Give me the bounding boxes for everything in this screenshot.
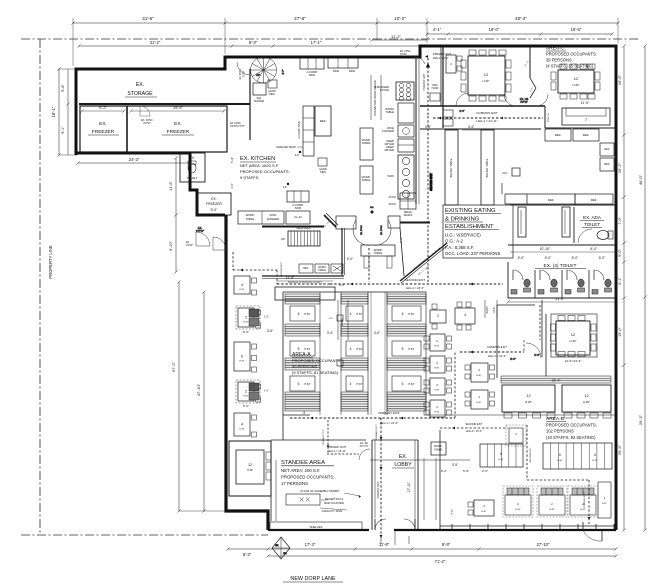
svg-text:LEG-1 = 24'-3": LEG-1 = 24'-3" <box>406 286 424 290</box>
buffet table 1 <box>425 125 458 205</box>
svg-text:H:30": H:30" <box>243 322 249 324</box>
banquette bench stripes column x285 <box>285 294 320 411</box>
svg-text:SINK: SINK <box>333 69 340 73</box>
sauce station <box>275 276 345 300</box>
corridor west wall <box>342 228 345 275</box>
svg-text:H:30": H:30" <box>408 348 414 351</box>
svg-text:(9 STAFFS, 81 SEATING): (9 STAFFS, 81 SEATING) <box>292 370 339 375</box>
svg-text:H:30": H:30" <box>573 83 580 87</box>
buffet table 2 <box>462 125 494 205</box>
svg-text:DRAWS: DRAWS <box>404 214 413 217</box>
svg-text:FREEZER: FREEZER <box>206 202 222 206</box>
place of assembly permit sign <box>300 489 361 498</box>
svg-text:TABLE: TABLE <box>318 269 326 272</box>
svg-text:FREEZER: FREEZER <box>92 129 115 135</box>
svg-text:3'-9": 3'-9" <box>482 469 488 473</box>
svg-text:11'-8": 11'-8" <box>379 542 390 547</box>
svg-text:5'-0": 5'-0" <box>599 256 607 260</box>
svg-text:16'-6": 16'-6" <box>617 74 622 85</box>
svg-text:H:30": H:30" <box>498 459 504 461</box>
svg-text:H:30": H:30" <box>434 390 439 392</box>
EX. LOBBY label <box>392 454 414 468</box>
svg-text:BUFFET TABLE: BUFFET TABLE <box>485 158 489 177</box>
AREA-A label block <box>292 352 342 375</box>
svg-text:PROPOSED OCCUPANTS:: PROPOSED OCCUPANTS: <box>546 52 597 57</box>
svg-text:6: 6 <box>594 453 596 457</box>
table 6 (west wall y342) <box>234 342 257 372</box>
svg-text:WASHER: WASHER <box>267 217 279 221</box>
banquette aisle lines <box>267 292 426 415</box>
svg-text:SHELVES: SHELVES <box>310 525 323 529</box>
lobby walls <box>372 440 418 530</box>
svg-text:EX. KITCHEN: EX. KITCHEN <box>240 156 275 162</box>
svg-text:7: 7 <box>585 118 587 122</box>
hand sink area-c left <box>430 84 440 101</box>
interior wall right of kitchen corridor <box>442 46 444 128</box>
svg-text:H:30": H:30" <box>434 412 439 414</box>
deep fryers <box>385 139 414 152</box>
svg-text:ESTABLISHMENT: ESTABLISHMENT <box>445 224 494 230</box>
svg-text:10'-2": 10'-2" <box>394 16 406 21</box>
dimension 24'-3" <box>76 157 191 165</box>
svg-text:EX.: EX. <box>189 156 194 160</box>
svg-text:40'-3": 40'-3" <box>515 16 527 21</box>
svg-text:AREA-B: AREA-B <box>546 416 564 422</box>
svg-text:OCC. LOAD: 237 PERSONS: OCC. LOAD: 237 PERSONS <box>445 251 501 256</box>
svg-text:7'-0": 7'-0" <box>450 509 454 515</box>
svg-text:BAR COUNTER: BAR COUNTER <box>324 501 344 505</box>
column (col.) <box>502 168 520 176</box>
svg-text:EX.: EX. <box>399 454 407 460</box>
svg-text:2: 2 <box>245 316 247 320</box>
svg-text:10'-0": 10'-0" <box>493 307 496 313</box>
svg-text:3'0"W": 3'0"W" <box>143 121 151 125</box>
svg-text:LEG-1 = 2'-0": LEG-1 = 2'-0" <box>433 56 449 60</box>
room EX. FREEZER 5'-0" <box>198 193 231 215</box>
svg-text:F.A.: 8,368 S.F.: F.A.: 8,368 S.F. <box>445 245 474 250</box>
table 4 bottom <box>463 469 494 516</box>
svg-text:46'-0": 46'-0" <box>638 174 643 185</box>
svg-text:3'0"W": 3'0"W" <box>196 229 204 233</box>
svg-text:STORAGE: STORAGE <box>127 91 153 97</box>
svg-text:27'-10": 27'-10" <box>537 542 551 547</box>
svg-text:REF.: REF. <box>548 198 555 202</box>
svg-text:GREASE TRAP: GREASE TRAP <box>276 145 296 149</box>
svg-text:102 PERSONS: 102 PERSONS <box>546 429 574 434</box>
svg-text:19'-9": 19'-9" <box>173 106 183 110</box>
svg-text:31'-6": 31'-6" <box>142 16 154 21</box>
svg-text:NET AREA: 1820 S.F.: NET AREA: 1820 S.F. <box>240 163 279 168</box>
dimension line top row 2 (right) <box>370 27 613 42</box>
svg-text:8'-3": 8'-3" <box>243 552 252 557</box>
svg-text:17'-1": 17'-1" <box>311 40 322 45</box>
col square mid2 <box>337 360 343 366</box>
high tables 2 H:30 row <box>503 482 611 518</box>
svg-text:3'0"W": 3'0"W" <box>186 244 193 247</box>
svg-text:SECOND EXIT: SECOND EXIT <box>281 262 283 277</box>
svg-text:F.D.: F.D. <box>295 153 300 157</box>
svg-text:PROPOSED OCCUPANTS:: PROPOSED OCCUPANTS: <box>281 475 334 480</box>
dimension line left bottom (57'-2", 47'-10") <box>171 280 240 512</box>
ramp area-b <box>485 300 497 318</box>
room EX. FREEZER (9'-2") <box>80 106 227 152</box>
room 12-table (bottom-left bump) <box>229 441 276 521</box>
svg-text:12: 12 <box>584 393 589 398</box>
svg-text:12: 12 <box>248 463 252 467</box>
door arc area-c middle <box>504 94 548 106</box>
kitchen south wall east segment <box>400 223 430 277</box>
svg-text:6: 6 <box>402 347 404 351</box>
egress right side to toilets <box>527 305 590 524</box>
banquette tables column x387 <box>392 306 421 391</box>
svg-text:F.D.: F.D. <box>370 207 374 209</box>
svg-text:EX.: EX. <box>174 121 182 127</box>
tables 4 column (middle) <box>424 334 452 417</box>
work table (lobby top) <box>424 442 458 520</box>
hand sink (top) <box>268 80 277 96</box>
area-b long tables (12 each) <box>502 385 611 418</box>
svg-text:5'-0": 5'-0" <box>510 357 516 361</box>
svg-text:BREAK: BREAK <box>404 211 412 214</box>
svg-text:5'-10": 5'-10" <box>231 157 234 163</box>
svg-text:WORK: WORK <box>434 444 442 448</box>
svg-text:21'-0": 21'-0" <box>555 297 565 301</box>
room EX. FREEZER (19'-9") <box>129 106 225 135</box>
svg-text:6: 6 <box>298 347 300 351</box>
egress common exit y352 <box>460 340 524 358</box>
svg-text:H:30": H:30" <box>602 503 607 505</box>
svg-text:3'-6": 3'-6" <box>267 329 273 333</box>
svg-text:EX. FPSC: EX. FPSC <box>381 225 383 235</box>
svg-text:REF.: REF. <box>320 119 327 123</box>
svg-text:H:30": H:30" <box>525 400 532 404</box>
svg-text:7'-0": 7'-0" <box>618 217 622 225</box>
egress common exit leg-1 (area-c) <box>433 111 550 128</box>
svg-text:SOUP: SOUP <box>389 195 397 199</box>
door arcs area-c entry <box>456 93 469 113</box>
counter 2-COMP sink (center vertical) <box>297 106 314 156</box>
svg-text:LEG-3 = 15'-11": LEG-3 = 15'-11" <box>328 449 346 453</box>
svg-text:9'-2": 9'-2" <box>99 106 107 110</box>
svg-text:4: 4 <box>350 382 352 386</box>
dimension line bottom <box>226 542 617 564</box>
soup station <box>389 193 416 217</box>
svg-text:57'-2": 57'-2" <box>171 361 176 372</box>
svg-text:LEG-1 = 14'-3": LEG-1 = 14'-3" <box>488 354 506 358</box>
svg-text:H:36": H:36" <box>247 469 253 472</box>
table 4 (west wall y276) <box>234 276 257 295</box>
svg-text:4'-4": 4'-4" <box>468 125 474 129</box>
refrigerator row (right mid) <box>502 183 613 204</box>
svg-text:SECOND EXIT: SECOND EXIT <box>530 447 532 462</box>
svg-text:(4 STAFFS, 35 SEATING): (4 STAFFS, 35 SEATING) <box>546 64 594 69</box>
small labels kitchen west exits <box>186 51 425 247</box>
table 2 (west wall y308) <box>236 306 269 334</box>
counter SINK boxes (top) <box>328 58 358 73</box>
svg-text:H:30": H:30" <box>481 511 486 513</box>
corridor partitions <box>510 205 616 237</box>
table 13-6 square (12 seats) <box>551 314 598 363</box>
svg-text:3'-0": 3'-0" <box>231 183 234 188</box>
svg-text:47'-10": 47'-10" <box>196 383 201 396</box>
banquette tables column x285 <box>290 306 315 391</box>
storefront mullions <box>440 524 616 530</box>
work table / dish washer row <box>238 211 310 224</box>
svg-text:4'-7": 4'-7" <box>281 69 285 74</box>
refrigerator (kitchen center) <box>315 106 331 136</box>
svg-text:3'0"x7'0": 3'0"x7'0" <box>359 445 368 448</box>
room EX. (4) TOILET <box>508 262 616 298</box>
door arcs kitchen west <box>196 226 226 250</box>
second exit leg-4 dashes <box>440 423 508 433</box>
svg-text:H:30": H:30" <box>580 509 586 511</box>
svg-text:H:30": H:30" <box>557 460 563 462</box>
egress down to lobby <box>375 418 382 540</box>
svg-text:SOUP: SOUP <box>389 202 397 206</box>
door arc bottom-right <box>583 522 602 541</box>
svg-text:STOVE: STOVE <box>380 88 390 92</box>
egress west corridor <box>233 252 277 271</box>
svg-text:REF.: REF. <box>604 147 610 151</box>
wall jog near standee <box>271 415 366 440</box>
svg-text:H:30": H:30" <box>304 348 310 351</box>
dimension 21'-0" <box>506 297 617 304</box>
svg-text:3'0"W": 3'0"W" <box>400 54 407 56</box>
kitchen double doors south <box>336 207 400 245</box>
svg-text:REF.: REF. <box>303 266 309 270</box>
svg-text:SAUCE STATION (H:30"): SAUCE STATION (H:30") <box>288 280 322 284</box>
area-b walls <box>426 300 616 415</box>
svg-text:PROPOSED OCCUPANTS:: PROPOSED OCCUPANTS: <box>240 169 290 174</box>
col square mid <box>337 315 343 321</box>
work table (kitchen NE) <box>385 103 414 123</box>
svg-text:5'-8": 5'-8" <box>61 84 65 92</box>
egress second exit horizontal y284 <box>277 262 503 290</box>
svg-text:H:30": H:30" <box>583 400 590 404</box>
svg-text:LEG-4 = 15'-3": LEG-4 = 15'-3" <box>466 430 483 433</box>
svg-text:8'-9": 8'-9" <box>442 542 451 547</box>
svg-text:13'-6"x13'-6": 13'-6"x13'-6" <box>565 359 582 363</box>
svg-text:SINK: SINK <box>309 73 316 77</box>
counter 2-COMP sink (kitchen south) <box>287 191 309 210</box>
banquette tables column x341 <box>346 306 363 391</box>
table 4 (west wall y413) <box>234 413 257 437</box>
svg-text:8'-0": 8'-0" <box>590 247 598 251</box>
svg-text:TABLE: TABLE <box>385 110 394 114</box>
counter 2-COMP. SINK (top) <box>300 58 324 77</box>
svg-text:PRIMARY EXIT: PRIMARY EXIT <box>433 52 452 56</box>
svg-text:TABLE: TABLE <box>374 251 383 255</box>
building outer wall <box>76 46 616 530</box>
svg-text:EX. (4) TOILET: EX. (4) TOILET <box>544 263 577 269</box>
shelves <box>270 522 362 530</box>
svg-text:UP: UP <box>281 237 285 241</box>
bench band area-b <box>501 376 611 383</box>
dimension line left lower (14'-6", 6'-10") <box>169 156 178 273</box>
svg-text:SECOND EXIT: SECOND EXIT <box>429 173 433 191</box>
table C2 (12 seats) <box>551 64 600 99</box>
svg-text:12: 12 <box>484 72 489 77</box>
refrigerators below area-c <box>545 129 614 171</box>
svg-text:H:30": H:30" <box>408 383 414 386</box>
svg-text:2: 2 <box>245 390 247 394</box>
svg-text:12: 12 <box>526 393 531 398</box>
stairs UP (kitchen south) <box>281 227 320 246</box>
svg-text:SINK: SINK <box>320 170 326 174</box>
capacity sign <box>320 508 347 513</box>
svg-text:EX. FPSC: EX. FPSC <box>240 68 242 79</box>
ice maker <box>253 83 266 103</box>
svg-text:71'-2": 71'-2" <box>435 559 446 564</box>
west wall tiny dims <box>231 157 234 189</box>
diagonal wall buffet west <box>400 243 448 283</box>
svg-text:24'-3": 24'-3" <box>129 157 140 162</box>
svg-text:MAKER: MAKER <box>254 99 264 103</box>
svg-text:1'-0": 1'-0" <box>264 316 269 319</box>
svg-text:8'-3": 8'-3" <box>249 40 258 45</box>
svg-text:H:30": H:30" <box>356 313 362 316</box>
svg-text:EX.: EX. <box>275 545 279 547</box>
svg-text:5'-0": 5'-0" <box>518 256 526 260</box>
svg-text:EXISTING EATING: EXISTING EATING <box>445 208 496 214</box>
exit sign diamond <box>272 537 290 559</box>
AREA-B label block <box>546 416 597 440</box>
grease trap <box>276 145 303 157</box>
svg-text:EX.: EX. <box>99 121 107 127</box>
svg-text:H:30": H:30" <box>356 383 362 386</box>
svg-text:23'-4": 23'-4" <box>552 379 561 383</box>
svg-text:RAMP: RAMP <box>340 318 344 326</box>
AREA-C label block <box>546 46 597 69</box>
kitchen label block <box>240 156 290 189</box>
svg-text:5'-0": 5'-0" <box>618 249 622 257</box>
svg-text:O.G.: A-2: O.G.: A-2 <box>445 239 464 244</box>
svg-text:9'-1": 9'-1" <box>61 126 65 134</box>
bench 7 (area-c) <box>562 108 610 125</box>
svg-text:39 PERSONS: 39 PERSONS <box>546 58 572 63</box>
svg-text:SINK: SINK <box>349 69 356 73</box>
svg-text:SINK: SINK <box>432 84 438 87</box>
room EX. TOILET (small, below freezer) <box>180 153 205 182</box>
svg-text:COMMON EXIT: COMMON EXIT <box>584 492 586 508</box>
svg-text:REF.: REF. <box>583 133 590 137</box>
svg-text:COOKER: COOKER <box>382 129 394 133</box>
svg-text:H:30": H:30" <box>304 313 310 316</box>
banquette area boundary <box>283 292 426 415</box>
svg-text:NEW DORP LANE: NEW DORP LANE <box>290 576 336 582</box>
svg-text:H:30": H:30" <box>476 402 481 404</box>
svg-text:4: 4 <box>241 423 243 427</box>
svg-text:3'-9": 3'-9" <box>452 463 458 467</box>
svg-text:TABLE: TABLE <box>434 448 442 452</box>
toilets dimension row <box>508 245 616 260</box>
svg-text:4: 4 <box>350 347 352 351</box>
svg-text:H:30": H:30" <box>239 429 245 431</box>
svg-text:12: 12 <box>571 332 576 337</box>
svg-text:DN: DN <box>283 553 287 555</box>
svg-text:EX.: EX. <box>136 82 144 88</box>
svg-text:5'-0": 5'-0" <box>211 208 219 212</box>
svg-text:H:30": H:30" <box>483 79 490 83</box>
svg-text:6: 6 <box>241 355 243 359</box>
table C1 (12 seats) <box>461 50 511 101</box>
standee top exit label <box>322 420 370 460</box>
room EX. ADA TOILET <box>574 207 613 243</box>
svg-text:9 STAFFS: 9 STAFFS <box>240 175 259 180</box>
svg-text:EX. FPSC: EX. FPSC <box>400 51 411 53</box>
rice cooker <box>382 125 414 137</box>
svg-text:H:30": H:30" <box>570 339 577 343</box>
svg-text:11'-8": 11'-8" <box>286 276 295 280</box>
svg-text:5'-1": 5'-1" <box>618 277 622 285</box>
svg-text:RECEPTION &: RECEPTION & <box>325 497 343 501</box>
svg-text:TABLE: TABLE <box>362 141 371 145</box>
tables 4 column 2 (middle) <box>465 363 495 409</box>
tables 6 bottom right <box>480 443 612 469</box>
svg-text:COMMON EXIT: COMMON EXIT <box>476 111 498 115</box>
svg-text:2: 2 <box>437 314 439 318</box>
svg-text:H:30": H:30" <box>239 289 245 291</box>
svg-text:18'-1": 18'-1" <box>51 106 56 117</box>
svg-text:31'-2": 31'-2" <box>150 40 161 45</box>
svg-text:H:30": H:30" <box>476 375 481 377</box>
svg-text:6: 6 <box>559 453 561 457</box>
dimension line left (18'-1") <box>51 67 77 156</box>
svg-text:12: 12 <box>574 76 579 81</box>
svg-text:5'-0": 5'-0" <box>347 257 353 261</box>
tables 2/4 middle <box>430 302 475 330</box>
dimension line top row 1 <box>71 16 619 66</box>
svg-text:3'-0": 3'-0" <box>459 109 464 113</box>
svg-text:PLACE OF ASSEMBLY PERMIT: PLACE OF ASSEMBLY PERMIT <box>300 489 339 493</box>
dimension line right outer <box>638 44 647 531</box>
table 4 dashed (mid-south) <box>506 425 526 446</box>
svg-text:PRIMARY EXIT: PRIMARY EXIT <box>375 424 378 440</box>
svg-text:29'-9": 29'-9" <box>617 444 622 455</box>
svg-text:REF.: REF. <box>604 162 610 166</box>
svg-text:3'-4": 3'-4" <box>327 331 333 335</box>
svg-text:EX.: EX. <box>211 197 217 201</box>
svg-text:H:30": H:30" <box>434 368 439 370</box>
hand sink (center) <box>318 158 327 174</box>
svg-text:PRIMARY EXIT: PRIMARY EXIT <box>322 429 325 445</box>
svg-text:H:30": H:30" <box>515 509 521 511</box>
kitchen east wall <box>415 57 417 204</box>
svg-text:17'-11": 17'-11" <box>407 481 411 492</box>
svg-text:STANDEE AREA: STANDEE AREA <box>281 460 325 466</box>
svg-text:5'-0": 5'-0" <box>572 256 580 260</box>
svg-text:6: 6 <box>402 382 404 386</box>
svg-text:LOBBY: LOBBY <box>394 462 412 468</box>
work tables (kitchen mid) <box>360 128 373 194</box>
svg-text:LEG-1 = 24'-11": LEG-1 = 24'-11" <box>476 119 497 123</box>
svg-text:90 PERSONS: 90 PERSONS <box>292 364 317 369</box>
svg-text:4'0"W": 4'0"W" <box>520 100 528 104</box>
svg-text:PROPOSED OCCUPANTS:: PROPOSED OCCUPANTS: <box>546 423 597 428</box>
svg-text:REF.: REF. <box>555 133 562 137</box>
svg-text:UP: UP <box>256 73 260 77</box>
svg-text:6'-10": 6'-10" <box>169 241 173 251</box>
svg-text:6: 6 <box>298 382 300 386</box>
egress second exit (diagonal) <box>369 248 440 282</box>
svg-text:3: 3 <box>303 411 305 415</box>
svg-text:3'0"W"x7'0"H": 3'0"W"x7'0"H" <box>230 125 245 128</box>
svg-text:PROPOSED OCCUPANTS:: PROPOSED OCCUPANTS: <box>292 358 342 363</box>
table 2 (west wall y382) <box>236 380 269 408</box>
svg-text:11'-0": 11'-0" <box>581 101 590 105</box>
svg-text:H:30": H:30" <box>408 313 414 316</box>
svg-text:U.G.: V(SERVICE): U.G.: V(SERVICE) <box>445 233 481 238</box>
